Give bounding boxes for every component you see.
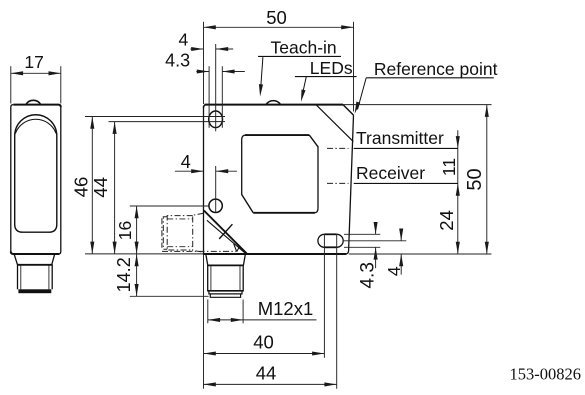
svg-text:Teach-in: Teach-in [271,38,337,58]
svg-text:4.3: 4.3 [357,262,378,288]
svg-text:50: 50 [266,7,287,28]
svg-text:17: 17 [24,52,43,72]
svg-text:14.2: 14.2 [114,257,134,292]
svg-text:153-00826: 153-00826 [510,365,582,384]
svg-text:50: 50 [464,168,486,190]
svg-text:Transmitter: Transmitter [356,128,444,148]
svg-text:11: 11 [439,158,459,176]
svg-text:24: 24 [436,210,457,231]
svg-text:44: 44 [256,363,277,384]
svg-text:Receiver: Receiver [356,163,425,183]
svg-text:16: 16 [115,221,135,240]
svg-text:46: 46 [70,177,91,198]
svg-text:4.3: 4.3 [165,51,190,71]
svg-text:4: 4 [181,152,191,172]
svg-text:4: 4 [179,30,189,50]
svg-text:40: 40 [253,332,274,353]
svg-text:LEDs: LEDs [310,58,353,78]
svg-text:Reference point: Reference point [374,59,498,79]
svg-text:4: 4 [384,266,404,276]
svg-text:M12x1: M12x1 [258,298,314,319]
svg-text:44: 44 [90,177,111,198]
